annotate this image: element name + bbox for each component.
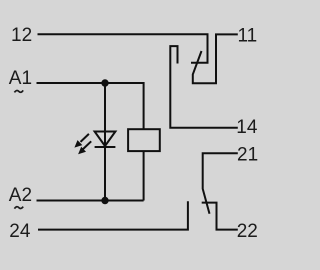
wire: terminal 11 common to pivot of contact 1, with moving arm diagonal [193, 34, 238, 83]
wire: terminal 21 common to moving arm of contact 2 [203, 153, 238, 213]
LED triangle (anode) [95, 132, 116, 147]
wire: terminal A1 to coil top [37, 83, 144, 129]
svg-text:11: 11 [238, 25, 258, 46]
wire: terminal 12 to NC fixed contact bar of contact 1 [38, 34, 208, 63]
LED emission arrow 2 [78, 141, 91, 154]
junction node A1/LED [101, 79, 108, 86]
svg-text:12: 12 [11, 25, 32, 46]
svg-text:24: 24 [9, 221, 31, 242]
relay coil K1 [128, 129, 160, 151]
tilde under A1 [14, 90, 23, 92]
svg-text:14: 14 [236, 117, 258, 138]
svg-text:22: 22 [237, 221, 258, 242]
svg-text:A2: A2 [9, 185, 32, 206]
LED cathode bar [95, 146, 116, 148]
svg-text:A1: A1 [9, 68, 32, 89]
wire: terminal A2 horizontal [37, 200, 144, 202]
wire: terminal 14 to NO fixed contact hook of contact 1 [170, 46, 238, 128]
wire: NC fixed contact bar of contact 2 to terminal 22 [202, 203, 238, 230]
svg-text:21: 21 [237, 145, 258, 166]
wire: LED branch vertical [104, 83, 106, 201]
tilde under A2 [14, 207, 23, 209]
junction node A2/LED [101, 197, 108, 204]
LED emission arrow 1 [74, 134, 89, 148]
wire: terminal 24 to NO fixed contact of contact 2 [38, 201, 188, 229]
wire: coil bottom to A2 wire [143, 151, 145, 200]
